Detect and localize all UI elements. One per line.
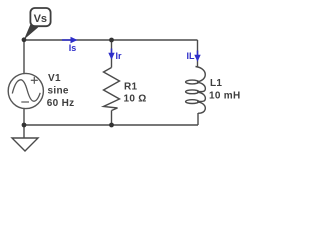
svg-text:L1: L1 xyxy=(210,78,222,89)
svg-text:IL: IL xyxy=(187,51,196,61)
svg-text:10 mH: 10 mH xyxy=(209,91,241,102)
svg-text:R1: R1 xyxy=(124,82,138,93)
svg-text:V1: V1 xyxy=(48,73,61,84)
node Vs flag xyxy=(24,8,51,40)
svg-text:Vs: Vs xyxy=(34,13,47,25)
wire resistor bottom lead xyxy=(111,111,113,126)
node dot top-middle xyxy=(109,38,114,43)
svg-text:Is: Is xyxy=(69,43,77,53)
wire left vertical upper xyxy=(23,40,25,74)
ground xyxy=(12,138,38,151)
wire left vertical lower xyxy=(23,109,25,125)
node dot top-left xyxy=(22,37,27,42)
current arrow Ir xyxy=(108,49,114,60)
svg-text:60 Hz: 60 Hz xyxy=(47,98,75,109)
voltage source V1 xyxy=(8,73,43,108)
node dot bottom-middle xyxy=(109,123,114,128)
svg-text:sine: sine xyxy=(48,86,69,97)
resistor R1 xyxy=(104,68,120,111)
current arrow Is xyxy=(62,37,78,43)
wire bottom horizontal xyxy=(24,124,198,126)
svg-text:10 Ω: 10 Ω xyxy=(124,94,147,105)
wire resistor top lead xyxy=(111,40,113,68)
current arrow IL xyxy=(194,51,200,62)
node dot bottom-left xyxy=(22,123,27,128)
wire top horizontal xyxy=(24,39,198,41)
wire inductor bottom lead xyxy=(197,113,199,125)
inductor L1 xyxy=(186,67,206,114)
wire ground stub xyxy=(23,125,25,138)
svg-text:Ir: Ir xyxy=(116,51,123,61)
wire inductor top lead xyxy=(197,40,199,67)
